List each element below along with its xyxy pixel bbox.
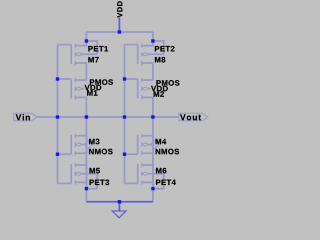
label M5 <box>90 168 100 173</box>
ground arrow on M4 bulk <box>153 140 159 150</box>
wire: M2 source to M4 drain <box>142 97 153 153</box>
port tag Vout <box>179 113 208 121</box>
VDD supply stub <box>118 17 120 32</box>
wire: M2 gate lead <box>125 78 138 80</box>
wire: M3 gate lead <box>58 153 72 155</box>
transistor M8 (PET2, PMOS top-right) <box>138 43 148 65</box>
wire: M1 bulk lead to VDD label <box>75 88 84 90</box>
transistor M7 (PET1, PMOS top-left) <box>71 43 81 65</box>
label PMOS of M1 <box>90 79 113 85</box>
wire: M3 source to M5 drain <box>75 136 86 183</box>
label PET2 <box>155 46 175 51</box>
wire: M6 source to ground rail <box>142 165 153 202</box>
label M8 <box>155 57 165 63</box>
wire: M4 gate lead <box>125 153 138 155</box>
transistor M4 (NMOS mid-right) <box>138 134 148 156</box>
wire: right gate rail (Vout net) <box>124 45 126 184</box>
ground symbol <box>112 202 126 218</box>
wire: left gate rail (Vin net) <box>57 45 59 184</box>
label PET4 <box>156 180 176 185</box>
transistor M3 (NMOS mid-left) <box>71 134 81 156</box>
label PET1 <box>88 46 108 51</box>
wire: M6 gate lead <box>125 182 138 184</box>
net label VDD (top supply, vertical) <box>117 1 122 17</box>
label NMOS of M4 <box>156 149 179 155</box>
node label Vout <box>180 114 201 120</box>
junction dots <box>118 30 121 33</box>
wire: PET1 source lead <box>75 32 86 46</box>
transistor M2 (PMOS mid-right) <box>138 78 148 100</box>
wire: PET1 drain to M1 drain <box>75 63 86 80</box>
label M2 <box>154 91 164 96</box>
node label Vin <box>16 114 30 120</box>
transistor M1 (PMOS mid-left) <box>71 78 81 100</box>
label M6 <box>156 168 166 174</box>
label PMOS of M2 <box>156 80 179 86</box>
label NMOS of M3 <box>89 149 112 155</box>
wire: bottom ground rail <box>86 201 152 203</box>
label M7 <box>88 57 98 62</box>
wire: PET2 bulk lead tied to VDD <box>142 53 164 55</box>
wire: Vin to Vout horizontal <box>37 116 179 118</box>
ground arrow on M3 bulk <box>87 140 93 150</box>
label VDD bulk of M1 <box>85 85 102 90</box>
wire: M5 gate lead <box>58 182 72 184</box>
wire: PET2 drain to M2 drain <box>142 63 153 80</box>
wire: PET2 gate lead <box>125 44 138 46</box>
wire: M4 bulk lead <box>142 144 152 146</box>
wire: PET2 source lead <box>142 32 153 46</box>
wire: PET1 bulk lead tied to VDD <box>75 53 97 55</box>
label PET3 <box>90 180 110 186</box>
wire: M6 bulk lead tied to ground <box>142 173 164 175</box>
wire: M4 source to M6 drain <box>142 136 153 183</box>
wire: M1 gate lead <box>58 78 72 80</box>
transistor M5 (PET3, bottom-left) <box>71 163 81 185</box>
wire: top VDD rail <box>86 31 152 33</box>
label M3 <box>89 139 99 145</box>
wire: M5 source to ground rail <box>75 165 86 202</box>
transistor M6 (PET4, bottom-right) <box>138 163 148 185</box>
label VDD bulk of M2 <box>151 86 168 91</box>
wire: M2 bulk lead to VDD label <box>142 88 151 90</box>
wire: M3 bulk lead <box>75 144 85 146</box>
wire: M5 bulk lead tied to ground <box>75 173 97 175</box>
wire: PET1 gate lead <box>58 44 72 46</box>
label M1 <box>87 90 97 95</box>
port tag Vin <box>14 113 38 121</box>
wire: M1 source to M3 drain <box>75 97 86 153</box>
label M4 <box>156 139 167 144</box>
